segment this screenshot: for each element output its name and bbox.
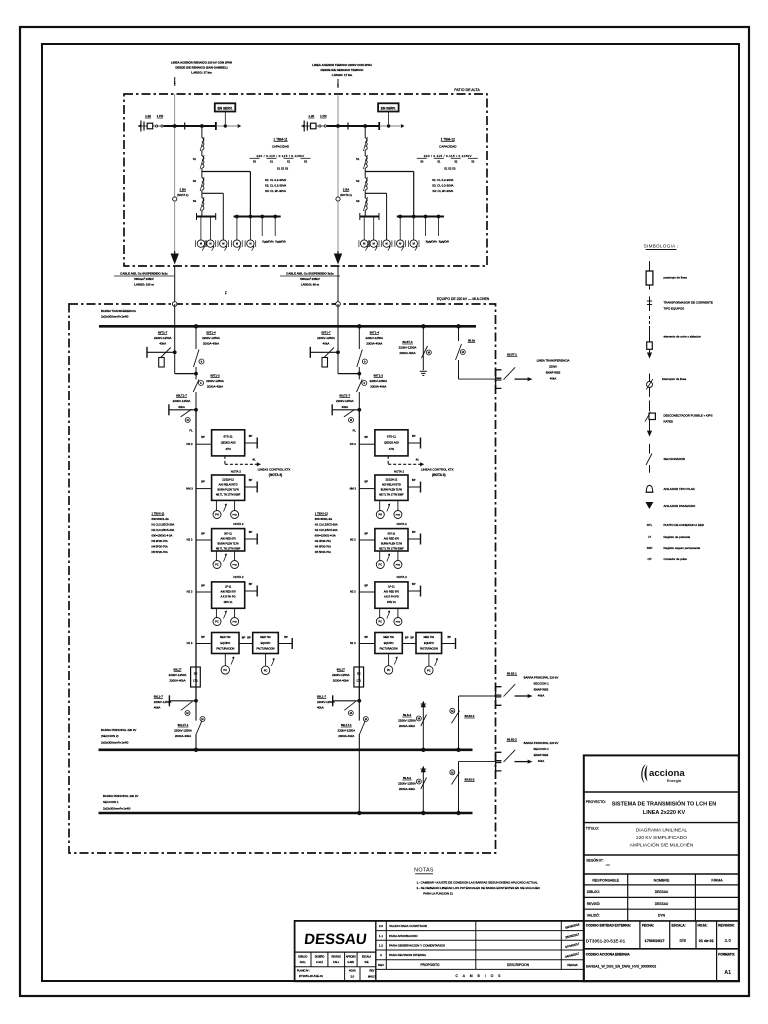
svg-text:N5 5P20-70A: N5 5P20-70A	[152, 550, 168, 554]
revision rows	[376, 930, 584, 932]
arm right 50 bayB	[408, 538, 421, 540]
svg-text:FACTURACION: FACTURACION	[216, 647, 234, 650]
svg-text:FECHA:: FECHA:	[642, 924, 654, 928]
svg-text:1 TBM-11: 1 TBM-11	[273, 138, 287, 142]
surge arrester above bus 2	[421, 811, 425, 815]
svg-text:DESCONECTADOR FUSIBLE + KIPS: DESCONECTADOR FUSIBLE + KIPS	[664, 414, 713, 418]
svg-text:2x(3x300mm²)+1x4/0: 2x(3x300mm²)+1x4/0	[101, 740, 129, 744]
bus barra principal seccion 1	[99, 812, 473, 815]
svg-text:1 TBXX-12: 1 TBXX-12	[315, 512, 329, 516]
dessau small cells	[295, 966, 376, 968]
reviso row	[584, 908, 739, 910]
arm right LP bayB	[408, 590, 421, 592]
revision table outer	[295, 921, 584, 981]
svg-text:1: 1	[174, 81, 176, 85]
surge counter box bay2	[311, 123, 317, 129]
svg-text:EQUIPO: EQUIPO	[261, 642, 271, 645]
svg-text:21/21N-12: 21/21N-12	[222, 478, 234, 481]
svg-text:PUNTO DE CONEXION A RED: PUNTO DE CONEXION A RED	[664, 523, 704, 527]
svg-text:elemento de corte y aislacion: elemento de corte y aislacion	[664, 335, 702, 339]
svg-text:Energía: Energía	[667, 779, 682, 783]
svg-text:40kA: 40kA	[538, 693, 545, 697]
svg-text:REVISO: REVISO	[331, 956, 341, 959]
svg-text:TITULO:: TITULO:	[586, 827, 599, 831]
svg-text:1 PR: 1 PR	[157, 114, 165, 118]
label box EN SERVICIO bay1	[215, 103, 236, 111]
svg-text:DIAGRAMA UNILINEAL: DIAGRAMA UNILINEAL	[636, 828, 688, 834]
ct under FACT bayA	[265, 654, 267, 667]
svg-text:REVISION:: REVISION:	[718, 924, 734, 928]
feeder exit arrow bay2	[337, 251, 339, 256]
svg-text:NOTA 2: NOTA 2	[233, 575, 243, 579]
svg-text:C.M.Z: C.M.Z	[316, 961, 323, 964]
svg-text:89T1-4: 89T1-4	[206, 331, 216, 335]
svg-text:1 TBXX-11: 1 TBXX-11	[152, 512, 165, 516]
svg-text:S2: CL 0.2-30VA: S2: CL 0.2-30VA	[432, 184, 453, 188]
svg-text:BP: BP	[249, 478, 253, 482]
svg-text:50?-11: 50?-11	[224, 532, 232, 535]
svg-text:BURN PLEN 717N: BURN PLEN 717N	[218, 542, 239, 545]
tick 2 bay2	[378, 122, 380, 130]
svg-text:1 PR: 1 PR	[320, 114, 328, 118]
svg-text:REV: REV	[369, 970, 374, 973]
svg-text:PARA OBSERVACION Y COMENTARIOS: PARA OBSERVACION Y COMENTARIOS	[389, 943, 445, 947]
svg-text:BP: BP	[412, 530, 416, 534]
disconnector arrester bus1	[421, 715, 427, 727]
arrow out at y696	[515, 695, 528, 697]
svg-text:FIRMA: FIRMA	[711, 879, 723, 883]
svg-text:M: M	[201, 717, 203, 721]
svg-text:BP: BP	[365, 479, 369, 483]
svg-text:FL: FL	[189, 429, 193, 433]
svg-text:40kA: 40kA	[323, 342, 330, 346]
svg-text:MED 702: MED 702	[383, 636, 394, 639]
acciona code row	[716, 949, 718, 982]
legend transformador symbol	[649, 297, 651, 312]
svg-text:N1 CL0.2/5C5-30A: N1 CL0.2/5C5-30A	[152, 523, 175, 527]
arm right FACT bayB	[442, 643, 456, 645]
svg-text:S3: S3	[356, 199, 360, 203]
svg-text:MED 702: MED 702	[220, 636, 231, 639]
svg-text:REV: REV	[378, 963, 384, 967]
svg-text:Registro de potencia: Registro de potencia	[664, 535, 691, 539]
svg-text:MED 702: MED 702	[260, 636, 271, 639]
svg-text:500mm² 245kV: 500mm² 245kV	[134, 277, 154, 281]
svg-text:PC: PC	[215, 564, 219, 567]
svg-text:2000A-40kA: 2000A-40kA	[399, 351, 415, 355]
svg-text:LP-11: LP-11	[388, 585, 395, 588]
svg-text:M: M	[451, 770, 453, 774]
svg-text:PROYECTO:: PROYECTO:	[586, 800, 606, 804]
tick breaker bay2	[347, 123, 349, 130]
reactor circle on feeder bay2	[336, 197, 340, 201]
svg-text:VALIDO PARA CONSTRUIR: VALIDO PARA CONSTRUIR	[389, 924, 428, 928]
svg-text:220kV-1250A: 220kV-1250A	[399, 346, 417, 350]
svg-text:N3 3P30-70A: N3 3P30-70A	[152, 539, 168, 543]
svg-text:BP: BP	[448, 635, 452, 639]
wire exit at y379	[459, 378, 496, 380]
svg-text:Registro seguro permanente: Registro seguro permanente	[664, 546, 701, 550]
svg-text:NOTA 2: NOTA 2	[394, 469, 404, 473]
svg-text:(SECCION 2): (SECCION 2)	[101, 734, 119, 738]
svg-text:NE TL TN 17TN 50BF: NE TL TN 17TN 50BF	[216, 493, 241, 496]
svg-text:220kV-1250A: 220kV-1250A	[317, 700, 335, 704]
svg-text:S2: S2	[454, 160, 458, 164]
svg-text:RESPONSABLE: RESPONSABLE	[592, 879, 619, 883]
svg-text:S2: S2	[287, 160, 291, 164]
wire line 1 drop tick	[174, 77, 176, 86]
svg-text:FORMATO:: FORMATO:	[718, 953, 735, 957]
meter circle 3 bay2	[383, 240, 390, 247]
svg-text:2000A-40kA: 2000A-40kA	[169, 679, 185, 683]
svg-text:DT3051-20-51E-01: DT3051-20-51E-01	[299, 974, 323, 978]
svg-text:LINEA ACENOR TEMUCO 220kV CON: LINEA ACENOR TEMUCO 220kV CON 2P0H	[312, 63, 372, 67]
svg-text:N1 3: N1 3	[350, 641, 356, 645]
svg-text:LINEA TRANSFERENCIA: LINEA TRANSFERENCIA	[537, 359, 570, 363]
svg-text:DESSAU: DESSAU	[303, 931, 367, 948]
svg-text:220kV-1250A: 220kV-1250A	[365, 336, 383, 340]
svg-text:(NOTA 3): (NOTA 3)	[432, 473, 445, 477]
tick 2 bay1	[215, 122, 217, 130]
svg-text:LT1: LT1	[357, 679, 362, 683]
wire stub to LP bayA	[196, 591, 212, 593]
transformer winding S3 bay1	[201, 193, 203, 198]
transformer winding S1 bay2	[365, 156, 367, 168]
svg-text:M: M	[399, 242, 401, 246]
svg-text:2x(3x300mm²)+1x4/0: 2x(3x300mm²)+1x4/0	[101, 315, 129, 319]
wire feeder drop bayA	[174, 304, 176, 352]
svg-text:BP: BP	[249, 530, 253, 534]
svg-text:M: M	[187, 418, 189, 422]
svg-text:67S-11: 67S-11	[224, 435, 233, 439]
svg-text:220kV-1250A: 220kV-1250A	[154, 700, 172, 704]
svg-text:A00 RED 970: A00 RED 970	[220, 591, 236, 594]
svg-text:BP: BP	[249, 434, 253, 438]
meter circle 5 bay2	[413, 217, 415, 240]
svg-text:EQUIPO: EQUIPO	[384, 642, 394, 645]
ct circles under 50 bayB	[379, 551, 381, 561]
meter box MED bayA	[212, 633, 239, 654]
meter circle 4 bay1	[236, 217, 238, 240]
junction arm2 bayA	[195, 392, 197, 410]
breaker blade at y379	[504, 367, 516, 379]
svg-text:2000A-40kA: 2000A-40kA	[203, 342, 219, 346]
wire S2 output bay1	[201, 190, 203, 193]
junction arm3 bayB	[357, 699, 361, 703]
svg-text:PLANO N°:: PLANO N°:	[297, 970, 310, 973]
bus barra principal seccion 2	[99, 748, 473, 751]
svg-text:S3: CL 3P-30VA: S3: CL 3P-30VA	[265, 189, 286, 193]
svg-text:2000A-40kA: 2000A-40kA	[333, 679, 349, 683]
svg-text:DT3051-20-51E-01: DT3051-20-51E-01	[586, 939, 626, 944]
svg-text:M: M	[365, 717, 367, 721]
wire stub to 21 bayA	[196, 488, 212, 490]
svg-text:BP: BP	[284, 635, 288, 639]
svg-text:(NOTA 3): (NOTA 3)	[269, 473, 282, 477]
svg-text:S3: S3	[304, 160, 308, 164]
svg-text:NS 3: NS 3	[350, 442, 356, 446]
svg-text:LINEA 2x220 KV: LINEA 2x220 KV	[643, 810, 686, 816]
svg-text:DESDE S/E RENAICO TEMUCO: DESDE S/E RENAICO TEMUCO	[321, 68, 365, 72]
svg-text:MED 702: MED 702	[424, 636, 435, 639]
svg-text:#1: #1	[416, 457, 419, 461]
svg-text:2 BA: 2 BA	[179, 188, 186, 192]
legend interruptor symbol	[649, 374, 651, 382]
svg-text:S1: S1	[193, 157, 197, 161]
wire entry line bay1	[164, 125, 216, 127]
svg-text:S1 S2 S3: S1 S2 S3	[444, 167, 456, 171]
svg-text:89.5T-1: 89.5T-1	[507, 353, 517, 357]
metering bus left bay2	[360, 216, 379, 218]
capacitor line trap bay1	[138, 124, 141, 127]
arrow out at y379	[515, 378, 528, 380]
svg-text:600=600/1-4G: 600=600/1-4G	[152, 517, 169, 521]
svg-text:M: M	[462, 350, 464, 354]
meter circle 1 bay2	[363, 217, 365, 240]
svg-text:89L1-7: 89L1-7	[154, 695, 164, 699]
svg-text:S1: S1	[356, 157, 360, 161]
svg-text:1.1: 1.1	[379, 934, 384, 938]
svg-text:BARRA PRINCIPAL 220 kV: BARRA PRINCIPAL 220 kV	[101, 728, 136, 732]
svg-text:Contador de pulso: Contador de pulso	[664, 557, 688, 561]
wire bay vertical bayB	[358, 410, 360, 701]
title block outer	[584, 755, 739, 981]
svg-text:S1: CL 0.2-30VA: S1: CL 0.2-30VA	[432, 178, 453, 182]
svg-text:S2: CL 0.2-30VA: S2: CL 0.2-30VA	[265, 184, 286, 188]
svg-text:DESSAU: DESSAU	[655, 890, 669, 894]
metering stubs with labels bay2	[425, 217, 427, 237]
svg-text:DYN: DYN	[658, 914, 666, 918]
dibujo row	[584, 896, 739, 898]
svg-text:2.0: 2.0	[379, 924, 384, 928]
svg-text:LINEAS CONTROL KTX: LINEAS CONTROL KTX	[258, 467, 291, 471]
svg-text:1.20: 1.20	[145, 114, 151, 118]
svg-text:interruptor de linea: interruptor de linea	[662, 377, 686, 381]
svg-text:89.82-4: 89.82-4	[465, 714, 475, 718]
svg-text:1.- CAMBIAR ¹ AJUSTE DE CONEXI: 1.- CAMBIAR ¹ AJUSTE DE CONEXION LAS BAR…	[417, 881, 539, 885]
svg-text:220 / 0.115 / 0.115 / 0.115kV: 220 / 0.115 / 0.115 / 0.115kV	[256, 154, 304, 158]
svg-text:PARA REVISION INTERNA: PARA REVISION INTERNA	[389, 953, 426, 957]
svg-text:BURN PLEN 717N: BURN PLEN 717N	[381, 542, 402, 545]
svg-text:50?-11: 50?-11	[388, 532, 396, 535]
wire between meter boxes bayA	[239, 643, 253, 645]
svg-text:PARA LA FUNCION 21: PARA LA FUNCION 21	[423, 892, 453, 896]
legend triangulo symbol	[645, 502, 653, 509]
svg-text:S1: S1	[270, 160, 274, 164]
svg-text:(NOTA 1): (NOTA 1)	[177, 193, 189, 197]
junction at bus 2 bayB	[357, 811, 361, 815]
svg-text:NOTAS: NOTAS	[414, 868, 434, 874]
breaker blade at y761	[504, 750, 516, 762]
svg-text:S1: S1	[437, 160, 441, 164]
svg-text:M: M	[451, 709, 453, 713]
svg-text:(NOTA 1): (NOTA 1)	[340, 193, 352, 197]
svg-text:EN SERV.: EN SERV.	[381, 106, 396, 110]
svg-text:40kA: 40kA	[159, 342, 166, 346]
relay box LP bayA	[212, 582, 245, 608]
svg-text:S3: S3	[471, 160, 475, 164]
metering stubs with labels bay1	[261, 217, 263, 237]
svg-text:AMPLIACIÓN S/E MULCHÉN: AMPLIACIÓN S/E MULCHÉN	[630, 842, 694, 849]
svg-text:EN SERV.: EN SERV.	[217, 106, 232, 110]
surge arrester mid on transfer bus	[421, 324, 425, 328]
svg-text:2000A-40kA: 2000A-40kA	[399, 724, 415, 728]
meter circle 5 bay1	[249, 217, 251, 240]
wire feeder 1 between boxes	[174, 266, 176, 304]
svg-text:SECCION 1: SECCION 1	[533, 747, 549, 751]
wire transformer branch bay1	[201, 126, 203, 138]
svg-text:N5 5P20-70A: N5 5P20-70A	[315, 550, 331, 554]
wire feeder to jog bayB	[337, 352, 339, 373]
legend campana symbol	[646, 485, 652, 492]
svg-text:BARRA PRINCIPAL 220 kV: BARRA PRINCIPAL 220 kV	[524, 741, 559, 745]
svg-text:600=1500/1-4-3A: 600=1500/1-4-3A	[315, 534, 336, 538]
transformer winding S2 bay1	[201, 172, 203, 179]
junction transformer branch bay2	[363, 124, 367, 128]
svg-text:2000A-40kA: 2000A-40kA	[366, 342, 382, 346]
svg-text:N2 3: N2 3	[350, 538, 356, 542]
junction under label box bay1	[224, 124, 227, 127]
ct under MED bayB	[388, 654, 390, 666]
svg-text:SISTEMA DE TRANSMISIÓN TO LCH: SISTEMA DE TRANSMISIÓN TO LCH EN	[612, 800, 717, 808]
boundary box equipo 220 kV	[69, 304, 496, 853]
svg-text:89L1-7: 89L1-7	[317, 695, 327, 699]
svg-text:220kV-1250A: 220kV-1250A	[336, 399, 354, 403]
svg-text:EQUIPO: EQUIPO	[220, 642, 230, 645]
svg-text:1: 1	[337, 83, 339, 87]
svg-text:89.82-2: 89.82-2	[465, 778, 475, 782]
legend elemento de corte symbol	[649, 316, 651, 329]
junction under label box bay2	[387, 124, 390, 127]
exit feeder bus2 riser	[456, 811, 460, 815]
svg-text:NOTA 2: NOTA 2	[397, 522, 407, 526]
disconnector 89T-4 bayA	[195, 326, 197, 349]
earthing box bayA	[159, 358, 165, 368]
svg-text:220kV: 220kV	[549, 365, 557, 369]
svg-text:LINEAS CONTROL KTX: LINEAS CONTROL KTX	[421, 467, 454, 471]
svg-text:S0: S0	[253, 160, 257, 164]
wire bay2	[364, 150, 366, 156]
ct under FACT bayB	[428, 654, 430, 667]
svg-text:QE002 A00: QE002 A00	[221, 441, 236, 445]
svg-text:CAPACIDAD: CAPACIDAD	[272, 145, 290, 149]
junction feeder tap bay2	[336, 124, 340, 128]
svg-text:BP: BP	[365, 435, 369, 439]
ct under MED bayA	[224, 654, 226, 666]
wire feeder to jog bayA	[174, 352, 176, 373]
disconnector small circles bay2	[316, 125, 327, 127]
svg-text:BARRA PRINCIPAL 220 kV: BARRA PRINCIPAL 220 kV	[103, 794, 138, 798]
svg-text:600=1500/1-4-3A: 600=1500/1-4-3A	[152, 534, 173, 538]
wall bushing at y696	[496, 687, 502, 695]
svg-text:S3: S3	[193, 199, 197, 203]
svg-text:M: M	[350, 418, 352, 422]
disconnector 89T-4 bayB	[358, 326, 360, 349]
svg-text:220kV-1250A: 220kV-1250A	[202, 336, 220, 340]
svg-text:17/05/2017: 17/05/2017	[644, 938, 665, 943]
junction feeder tap bay1	[173, 124, 177, 128]
svg-text:CODIGO ACCIONA ENERGIA: CODIGO ACCIONA ENERGIA	[586, 953, 631, 957]
svg-text:47N: 47N	[225, 447, 230, 451]
svg-text:2000A-40kA: 2000A-40kA	[399, 787, 415, 791]
svg-text:PH: PH	[215, 514, 219, 517]
svg-text:A K R PH PG: A K R PH PG	[221, 596, 236, 599]
junction bus tap bayA	[194, 324, 198, 328]
exit feeder top (transfer)	[456, 324, 460, 328]
svg-text:acciona: acciona	[649, 768, 685, 779]
svg-text:M: M	[418, 717, 420, 721]
disconnector 89LT-7 arm bayB	[331, 404, 333, 415]
svg-text:1.0: 1.0	[379, 943, 384, 947]
svg-text:M: M	[350, 711, 352, 715]
svg-text:S3: CL 3P-30VA: S3: CL 3P-30VA	[432, 189, 453, 193]
svg-text:220kV-1250A: 220kV-1250A	[154, 336, 172, 340]
svg-text:89.8-4: 89.8-4	[403, 713, 412, 717]
svg-text:RNV 21: RNV 21	[387, 601, 396, 604]
reactor circle on feeder bay1	[173, 197, 177, 201]
wire bay to bus 1 bayA	[195, 734, 197, 750]
bushing circle feeder 1	[172, 302, 177, 307]
meter circle 1 bay1	[200, 217, 202, 240]
relay box 21 bayB	[375, 475, 408, 500]
svg-text:N1 3: N1 3	[187, 641, 193, 645]
svg-text:47N: 47N	[389, 447, 394, 451]
svg-text:220kV-1250A: 220kV-1250A	[398, 782, 416, 786]
svg-text:VALIDÓ:: VALIDÓ:	[587, 913, 600, 918]
svg-text:M: M	[186, 711, 188, 715]
svg-text:40kA: 40kA	[154, 706, 161, 710]
surge arrester above bus 1	[421, 748, 425, 752]
svg-text:89.8T-4: 89.8T-4	[403, 340, 413, 344]
svg-text:220kV-1250A: 220kV-1250A	[398, 719, 416, 723]
svg-text:M: M	[249, 242, 251, 246]
svg-text:NS 3: NS 3	[187, 442, 193, 446]
dashed control line bayB	[387, 456, 389, 464]
svg-text:89T1-3: 89T1-3	[210, 374, 220, 378]
disconnector exit bus2	[452, 772, 460, 784]
proyecto row	[584, 822, 739, 824]
label box EN SERVICIO bay2	[378, 103, 399, 111]
svg-text:PC: PC	[379, 564, 383, 567]
svg-text:BURN PLEN TLFN: BURN PLEN TLFN	[381, 488, 402, 491]
ct circles under LP bayB	[379, 608, 381, 617]
bus barra transferencia	[99, 325, 476, 328]
svg-text:89L1T: 89L1T	[337, 668, 346, 672]
svg-text:PC: PC	[387, 669, 391, 672]
metering bus right bay2	[397, 216, 444, 218]
wire S1 output bay2	[364, 168, 366, 172]
svg-text:M: M	[200, 242, 202, 246]
wire stub to 21 bayB	[359, 488, 375, 490]
svg-text:89L1T-1: 89L1T-1	[341, 723, 352, 727]
svg-text:ENAP RES: ENAP RES	[546, 371, 561, 375]
wire S2 output bay2	[364, 190, 366, 193]
svg-text:JT: JT	[648, 535, 651, 539]
svg-text:LARGO: 90 m: LARGO: 90 m	[301, 282, 320, 286]
svg-text:DIBUJO: DIBUJO	[298, 956, 307, 959]
disconnector 89T-7 arm bayB	[309, 347, 311, 358]
svg-text:BARRA TRANSFERENCIA: BARRA TRANSFERENCIA	[101, 309, 136, 313]
svg-text:NOTA 2: NOTA 2	[231, 469, 241, 473]
svg-text:M: M	[363, 242, 365, 246]
svg-text:600=600/1-4G: 600=600/1-4G	[315, 517, 332, 521]
svg-text:2000A-40kA: 2000A-40kA	[207, 385, 223, 389]
svg-text:DISEÑO: DISEÑO	[315, 956, 325, 959]
svg-text:N1 CL0.2/5C5-30A: N1 CL0.2/5C5-30A	[315, 523, 338, 527]
svg-text:SANGA1_W_DSS_EN_DWG_HVS_300000: SANGA1_W_DSS_EN_DWG_HVS_30000002	[586, 965, 656, 969]
svg-text:SEGÚN IP:: SEGÚN IP:	[586, 858, 603, 863]
svg-text:N2 3: N2 3	[187, 538, 193, 542]
